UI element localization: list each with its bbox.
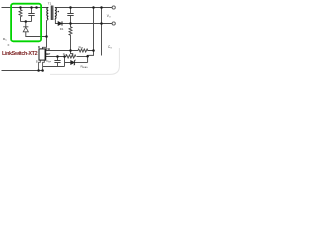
terminal +V output [112, 6, 115, 9]
wire: DC bus top rail (primary) [2, 7, 49, 9]
tiny sub-mark below label [8, 44, 10, 45]
wire: clamp top joining wire [21, 21, 32, 23]
svg-text:VO: VO [107, 14, 111, 19]
capacitor snubber C2 [67, 8, 73, 24]
wire: secondary bottom to diode and return rail [55, 19, 112, 24]
node: sense line at R FB [92, 49, 95, 52]
svg-text:RBIAS: RBIAS [81, 65, 89, 70]
node: FB node [69, 49, 72, 52]
IC right edge shading [44, 49, 46, 59]
wire: secondary top rail to output [55, 7, 112, 9]
svg-text:CBP: CBP [46, 59, 52, 64]
node: return rail at snubber [69, 22, 72, 25]
op IC U1 LinkSwitch-XT2 [39, 49, 46, 60]
resistor divider upper R (x70) [69, 24, 72, 51]
resistor R FB upper (horizontal) [78, 49, 94, 52]
node: cap line top [100, 6, 103, 9]
svg-text:RFB: RFB [63, 52, 68, 56]
svg-text:D1: D1 [60, 27, 64, 31]
wire: BP pin wire A [46, 56, 66, 58]
transformer polarity dot primary [35, 6, 38, 9]
svg-text:RFB: RFB [79, 45, 84, 49]
capacitor C BP [54, 57, 60, 67]
svg-text:FB: FB [46, 47, 50, 51]
diode D1 clamp (cathode up) [23, 22, 28, 27]
node: BP cap tap [56, 55, 59, 58]
wire: wire A right part [77, 56, 88, 58]
wire: clamp diode to drain node [26, 32, 47, 37]
node: clamp RC bottom [25, 20, 28, 23]
wire: drain line from primary bottom to IC drain [43, 19, 49, 49]
node: source to ground right [41, 69, 44, 72]
wire: IC source stubs to ground [39, 60, 45, 70]
node: clamp C top [30, 6, 33, 9]
svg-text:T1: T1 [48, 2, 52, 6]
resistor R1 clamp [19, 8, 22, 22]
svg-text:LinkSwitch-XT2: LinkSwitch-XT2 [2, 51, 38, 57]
wire: primary return bottom rail [2, 70, 43, 72]
node: return rail at cap line [100, 22, 103, 25]
diode D2 output rectifier [58, 22, 62, 26]
wire: zener cathode to right node [75, 62, 88, 64]
node: snubber top [69, 6, 72, 9]
green highlight box around clamp [11, 4, 41, 42]
wire: FB pin wire [46, 50, 78, 52]
capacitor C1 clamp [28, 8, 34, 22]
resistor R FB lower (horizontal on wire A) [66, 55, 76, 58]
card border frame [50, 48, 119, 74]
wire: output sense drop x93 [88, 8, 94, 63]
node: drain junction [45, 35, 48, 38]
svg-text:DC: DC [3, 37, 7, 42]
svg-text:CO: CO [108, 45, 112, 50]
node: right feedback node [86, 55, 89, 58]
zener diode VR feedback [71, 61, 75, 65]
node: source to ground left [37, 69, 40, 72]
wire: zener anode side vertical and ground rail [43, 57, 71, 67]
node: sense line top [92, 6, 95, 9]
wire: FB node jog down [71, 51, 73, 57]
transformer T1 primary winding [47, 8, 48, 19]
transformer polarity dot secondary [58, 11, 60, 13]
transformer T1 secondary winding [55, 8, 56, 19]
wire: output cap line x101 [101, 8, 103, 56]
terminal RTN output [112, 22, 115, 25]
svg-text:BP: BP [46, 52, 50, 56]
transformer T1 core [51, 6, 53, 21]
svg-text:S: S [36, 60, 38, 64]
node: zener anode tap [63, 55, 66, 58]
svg-text:D: D [38, 45, 40, 49]
node: clamp R top [19, 6, 22, 9]
